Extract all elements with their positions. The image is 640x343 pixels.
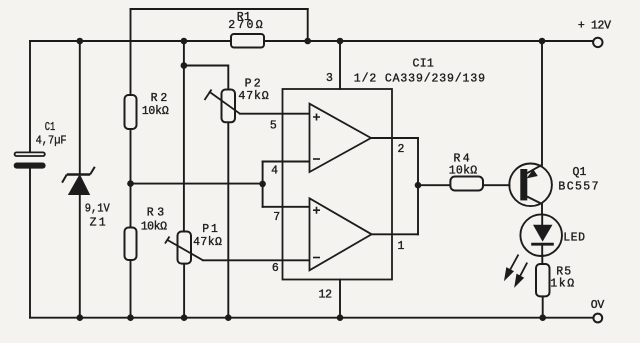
junction zener on 9.1V rail (77, 38, 84, 45)
wire R3 bottom (130, 260, 132, 318)
svg-text:7: 7 (273, 211, 280, 224)
svg-text:1/2 CA339/239/139: 1/2 CA339/239/139 (354, 72, 485, 85)
wire zener branch lower (79, 194, 81, 317)
wire input split loop (262, 162, 264, 207)
svg-text:47kΩ: 47kΩ (193, 236, 222, 249)
transistor Q1 BC557 (509, 164, 598, 215)
junction R5 on 0V rail (539, 314, 546, 321)
wire Q1 emitter to +12V rail (541, 41, 543, 165)
svg-text:OV: OV (591, 299, 605, 312)
svg-text:P: P (245, 78, 252, 91)
svg-text:9,1V: 9,1V (85, 203, 110, 216)
svg-text:2: 2 (254, 78, 261, 91)
junction P1 on 0V rail (181, 314, 188, 321)
svg-text:Z: Z (90, 217, 97, 230)
capacitor C1 4,7uF (14, 121, 67, 169)
wire P1 bottom to 0V (183, 264, 185, 318)
svg-text:1: 1 (99, 217, 106, 230)
svg-text:6: 6 (272, 262, 279, 275)
op-amp U1a upper comparator (310, 104, 372, 172)
potentiometer P1 47k (165, 223, 222, 264)
wire pin 1 output (372, 233, 418, 235)
svg-text:5: 5 (270, 120, 277, 133)
svg-text:4,7µF: 4,7µF (36, 135, 67, 148)
svg-text:LED: LED (563, 232, 585, 245)
svg-text:1: 1 (580, 166, 587, 179)
wire R5 to 0V rail (542, 296, 544, 317)
resistor R2 10k (125, 92, 169, 129)
wire output node to R4 (418, 184, 450, 186)
junction pin 3 on +12V rail (337, 38, 344, 45)
wire +12V rail right of R1 (264, 40, 593, 42)
svg-text:R: R (147, 206, 154, 219)
svg-text:+ 12V: + 12V (578, 20, 611, 33)
svg-text:P: P (202, 223, 209, 236)
wire P1 wiper to pin 6 (203, 259, 310, 261)
junction top rail drop (304, 38, 311, 45)
wire R2 to R3 branch (130, 129, 132, 228)
resistor R5 1k (536, 264, 574, 296)
junction R3 on 0V rail (127, 314, 134, 321)
wire top rail (+12V over R1) (131, 8, 308, 10)
wire LED to R5 (541, 255, 543, 264)
svg-text:1: 1 (398, 240, 405, 253)
wire pin 4 entry (263, 161, 310, 163)
svg-text:CI1: CI1 (413, 57, 434, 70)
wire pin 7 entry (263, 206, 310, 208)
svg-text:Q: Q (573, 166, 580, 179)
wire output join vertical (417, 138, 419, 234)
svg-text:1: 1 (211, 223, 218, 236)
resistor R3 10k (125, 206, 168, 260)
wire pin 12 (339, 280, 341, 318)
svg-text:10kΩ: 10kΩ (141, 220, 167, 233)
potentiometer P2 47k (205, 78, 269, 123)
junction P branch on 9.1V rail (181, 38, 188, 45)
wire top rail right drop (307, 9, 309, 41)
wire P2 top tap (184, 66, 228, 90)
junction pin 12 on 0V rail (337, 314, 344, 321)
resistor R1 270ohm (228, 11, 264, 48)
zener diode Z1 9,1V (62, 167, 110, 230)
svg-text:47kΩ: 47kΩ (238, 90, 268, 103)
LED light emission arrows (505, 255, 527, 286)
junction comparator outputs (415, 182, 422, 189)
wire left rail above C1 (29, 41, 31, 152)
svg-text:3: 3 (326, 72, 333, 85)
svg-text:10kΩ: 10kΩ (449, 165, 478, 178)
svg-text:BC557: BC557 (558, 181, 598, 194)
wire zener branch upper (79, 41, 81, 174)
terminal 0V (591, 299, 605, 322)
wire LED internal anode (541, 214, 543, 224)
junction Q1 emitter on +12V rail (539, 38, 546, 45)
wire 9.1V reference rail (30, 40, 231, 42)
svg-text:10kΩ: 10kΩ (142, 105, 169, 118)
svg-text:12: 12 (319, 289, 333, 302)
wire P branch vertical (183, 41, 185, 232)
junction P2 tap (181, 62, 188, 69)
wire R4 to Q1 base (483, 184, 510, 186)
resistor R4 10k (449, 153, 483, 191)
wire R2 top branch to top rail (130, 9, 132, 95)
LED D1 (520, 214, 585, 256)
svg-text:R: R (151, 92, 158, 105)
junction divider midpoint (127, 180, 134, 187)
wire pin 2 output (371, 137, 418, 139)
op-amp U1 box (CI1 1/2 CA339/239/139) (283, 57, 486, 279)
terminal +12V (578, 20, 611, 47)
wire P2 bottom to 0V (227, 122, 229, 317)
junction zener on 0V rail (77, 314, 84, 321)
svg-text:4: 4 (271, 165, 278, 178)
junction P2 on 0V rail (225, 314, 232, 321)
svg-text:3: 3 (157, 206, 164, 219)
svg-text:1kΩ: 1kΩ (550, 278, 574, 291)
op-amp U1b lower comparator (310, 198, 372, 270)
wire LED internal cathode (541, 246, 543, 256)
wire divider midpoint to comparator inputs (131, 183, 263, 185)
svg-text:2: 2 (398, 143, 405, 156)
wire P2 wiper to pin 5 (240, 113, 310, 115)
wire pin 3 (339, 41, 341, 89)
wire left rail below C1 (29, 168, 31, 317)
svg-text:2: 2 (160, 92, 167, 105)
wire bottom 0V rail (30, 317, 594, 319)
svg-text:C1: C1 (45, 121, 56, 134)
junction input loop (259, 181, 266, 188)
